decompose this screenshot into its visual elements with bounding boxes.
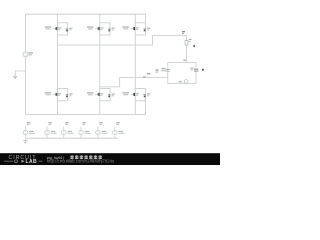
net label above R corner xyxy=(182,31,185,32)
ground at V1 xyxy=(13,76,17,79)
transistor M4 (bottom, phase 1) xyxy=(45,89,73,101)
ground at source bus xyxy=(23,138,27,144)
wire left rail upper xyxy=(25,14,27,52)
transistor M5 (bottom, phase 2) xyxy=(87,89,115,101)
transistor M1 (top, phase 1) xyxy=(45,23,73,35)
wire column 2 verticals xyxy=(99,14,101,23)
svg-text:http://circuitlab.com/c24840hj: http://circuitlab.com/c24840hj7824s xyxy=(47,159,114,164)
voltage source V4 xyxy=(62,122,74,138)
svg-text:LAB: LAB xyxy=(26,159,37,165)
node A label dot xyxy=(193,45,195,47)
wire bottom DC bus xyxy=(26,101,146,115)
voltage source V7 xyxy=(113,122,125,138)
wire left rail lower xyxy=(25,57,27,115)
gate signal source bus xyxy=(25,137,117,139)
voltage source V6 xyxy=(96,122,108,138)
floating net labels over phase wire xyxy=(143,76,146,77)
wire top DC bus xyxy=(26,14,146,23)
transistor M2 (top, phase 2) xyxy=(87,23,115,35)
capacitor C1 (load loop right branch) xyxy=(191,68,199,72)
wire ground branch near V1 xyxy=(15,71,25,76)
voltage source V1 xyxy=(23,52,33,57)
wire R1 to load loop xyxy=(186,45,188,63)
net label at load feed xyxy=(183,60,186,61)
voltage source V5 xyxy=(79,122,91,138)
transistor M3 (top, phase 3) xyxy=(122,23,150,35)
wire load loop xyxy=(168,63,196,68)
resistor R1 xyxy=(185,39,191,45)
inductor L1 (load loop left branch) xyxy=(162,68,170,72)
wire column 1 verticals xyxy=(57,14,59,23)
ammeter / meter on load loop bottom xyxy=(179,80,188,84)
wire column 3 verticals xyxy=(134,14,136,23)
wire phase B tap xyxy=(100,78,168,87)
transistor M6 (bottom, phase 3) xyxy=(122,89,150,101)
voltage source V2 xyxy=(23,122,35,138)
node B label dot xyxy=(202,69,204,71)
wire phase A bus to load xyxy=(58,36,187,46)
voltage source V3 xyxy=(45,122,57,138)
